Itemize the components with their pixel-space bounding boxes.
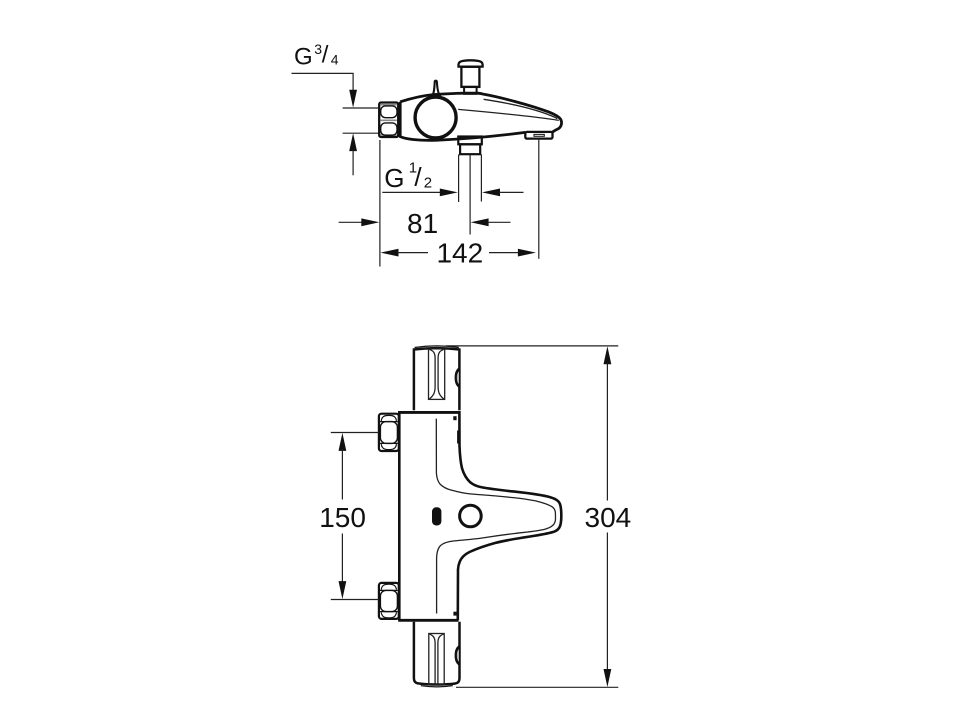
150 extension line top xyxy=(331,432,379,434)
svg-text:/: / xyxy=(322,41,329,68)
wall plane extension line xyxy=(379,140,381,267)
wall union nut top (bottom view) xyxy=(379,414,399,451)
142 dimension left arrow xyxy=(381,249,399,257)
spout inner contour line xyxy=(436,419,555,614)
body bottom edge thick xyxy=(398,619,458,622)
aerator slot xyxy=(534,134,544,136)
bottom knob grip groove xyxy=(429,634,444,685)
hose centre extension line xyxy=(469,154,471,234)
hose extension line right xyxy=(480,154,482,201)
union nut (top view, G3/4) xyxy=(379,103,398,138)
top knob bevel arc xyxy=(415,346,459,348)
svg-text:G: G xyxy=(294,43,313,70)
body (cartridge housing) xyxy=(399,412,459,620)
81 dimension left arrow xyxy=(339,221,362,223)
svg-text:2: 2 xyxy=(424,175,432,192)
150 extension line bottom xyxy=(331,599,379,601)
spout body bottom edge xyxy=(400,102,525,141)
svg-text:81: 81 xyxy=(407,208,438,239)
svg-text:/: / xyxy=(414,162,422,192)
142 dimension right arrow xyxy=(489,252,519,254)
spout body outline (top view) xyxy=(400,93,561,132)
bottom knob side button xyxy=(455,645,460,666)
shower outlet upper flange xyxy=(458,137,482,145)
bottom handle knob xyxy=(414,622,460,685)
spout top highlight line xyxy=(484,99,558,119)
arrow down G3/4 xyxy=(349,90,357,108)
leader line G3/4 xyxy=(292,73,354,91)
label G 3/4 xyxy=(294,41,339,71)
hose extension line left xyxy=(458,154,460,202)
outlet circle xyxy=(460,505,482,527)
diverter knob neck xyxy=(464,87,477,94)
small screw mark bottom xyxy=(453,612,456,616)
150 dimension line with arrows xyxy=(339,433,347,451)
extension line nut bottom xyxy=(343,132,379,134)
spout outer profile (front view) xyxy=(458,446,561,570)
diverter knob cap xyxy=(459,60,483,66)
svg-text:142: 142 xyxy=(436,238,483,269)
svg-text:G: G xyxy=(384,163,404,193)
label G 1/2 xyxy=(384,160,432,193)
G1/2 left-pointing arrow (right side) xyxy=(482,189,500,197)
bottom knob bevel arc xyxy=(421,686,453,687)
body top edge thick xyxy=(398,411,460,414)
svg-text:150: 150 xyxy=(319,502,366,533)
top knob side button xyxy=(455,367,460,388)
top knob grip groove xyxy=(429,349,445,400)
extension line nut top xyxy=(343,107,379,109)
shower outlet lower nipple xyxy=(460,144,480,154)
escutcheon edge detail xyxy=(457,431,459,444)
304 extension line bottom xyxy=(456,686,618,688)
spout middle contour line xyxy=(458,109,559,120)
temperature lever xyxy=(432,81,441,96)
arrow up G3/4 xyxy=(349,133,357,151)
81 dimension right arrow xyxy=(471,218,489,226)
diverter knob stem xyxy=(461,67,479,87)
304 extension line top xyxy=(446,345,618,347)
svg-text:4: 4 xyxy=(331,52,339,68)
small screw mark top xyxy=(453,416,456,420)
wall union nut bottom (bottom view) xyxy=(379,583,399,619)
G1/2 dimension line with right-pointing arrow xyxy=(382,191,441,193)
aerator at spout tip xyxy=(525,132,552,139)
304 dimension line with arrows xyxy=(604,346,612,364)
top handle knob xyxy=(414,348,460,410)
union ring (circle) xyxy=(415,97,456,138)
body right lower edge xyxy=(456,570,459,621)
aerator extension line xyxy=(538,139,540,259)
svg-text:304: 304 xyxy=(585,502,632,533)
black button blob xyxy=(432,507,441,525)
